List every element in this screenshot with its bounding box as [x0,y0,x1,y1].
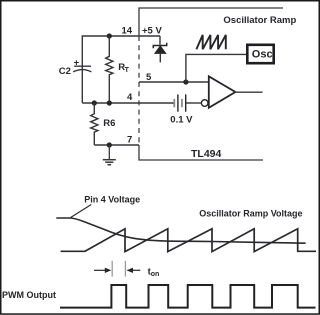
capacitor C2 [73,66,91,72]
resistor RT [106,36,113,103]
oscillator ramp waveform [61,229,316,252]
wire comparator output [235,91,263,93]
svg-text:Osc: Osc [252,48,273,60]
IC box left edge dashed [138,36,140,145]
leader line [71,205,92,218]
svg-text:14: 14 [122,26,133,37]
node junction R6 top [92,100,97,105]
Osc block [247,45,273,63]
svg-text:0.1 V: 0.1 V [170,114,193,125]
PWM output waveform [60,285,316,308]
node junction pin14/RT [107,33,112,38]
node junction pin5 [183,79,188,84]
IC box TL494 (partial outline) [139,8,283,160]
wire pin14 net [82,36,160,103]
op-amp comparator [201,100,208,107]
node junction ground [107,142,112,147]
svg-text:C2: C2 [59,66,71,77]
wire battery to comparator [186,102,202,104]
svg-text:T: T [125,67,130,74]
wire pin4 net [82,102,174,104]
battery 0.1 V [174,94,185,111]
svg-text:+5 V: +5 V [142,26,162,37]
ground [103,145,116,165]
wire pin5 net [139,81,209,83]
svg-text:7: 7 [127,135,132,146]
svg-text:Oscillator Ramp Voltage: Oscillator Ramp Voltage [199,208,302,218]
t_on dimension arrows [94,261,140,277]
wire to Osc [186,54,246,82]
wire pin7 net [94,144,139,146]
zener diode [153,36,166,62]
svg-text:Pin 4 Voltage: Pin 4 Voltage [84,194,140,204]
svg-text:on: on [151,271,160,278]
svg-text:Oscillator Ramp: Oscillator Ramp [223,15,296,26]
svg-text:4: 4 [127,92,133,103]
svg-text:PWM Output: PWM Output [2,290,56,300]
svg-text:+: + [74,58,80,69]
svg-text:R6: R6 [103,118,115,129]
node junction RT bottom [107,100,112,105]
sawtooth ramp symbol [196,35,225,49]
pin 4 voltage curve [56,218,305,243]
svg-text:TL494: TL494 [191,148,222,160]
resistor R6 [91,103,98,145]
